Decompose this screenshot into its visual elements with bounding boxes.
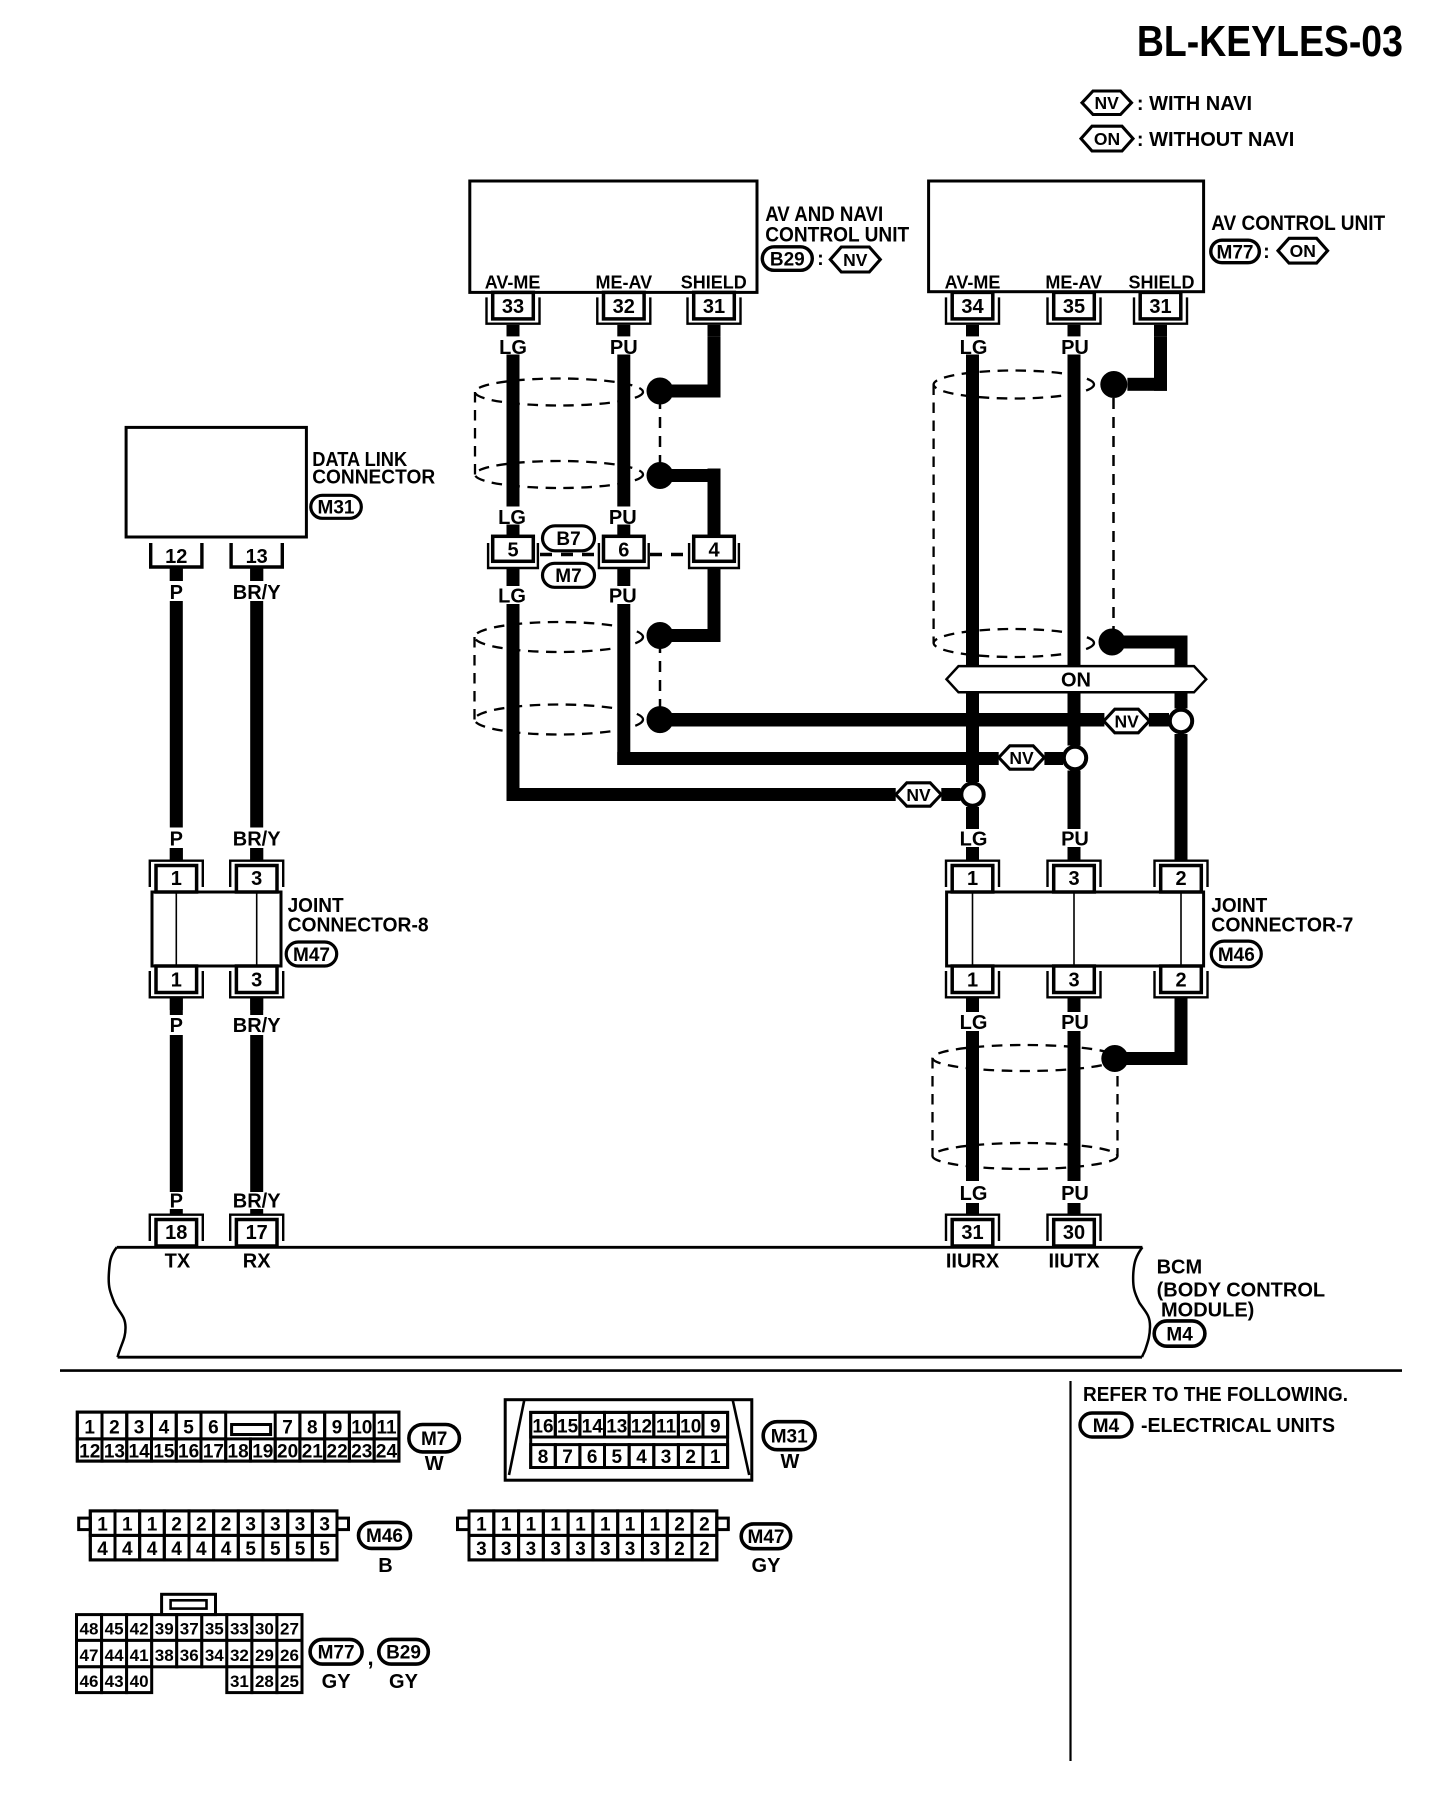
- wire LG right stub above pin 31: [966, 1203, 979, 1215]
- svg-text:5: 5: [183, 1418, 194, 1439]
- inline connector dashed link 6-4: [650, 553, 688, 556]
- svg-text:M77: M77: [1217, 242, 1254, 263]
- svg-text:,: ,: [367, 1645, 373, 1670]
- svg-text:43: 43: [105, 1672, 124, 1691]
- svg-text:12: 12: [165, 546, 187, 568]
- shield cylinder 4 (right upper): [934, 371, 1094, 399]
- svg-text:AV-ME: AV-ME: [485, 273, 541, 293]
- shield junction dot 4: [647, 706, 674, 733]
- svg-text:PU: PU: [609, 586, 637, 608]
- svg-text:BL-KEYLES-03: BL-KEYLES-03: [1137, 17, 1403, 66]
- svg-text:1: 1: [171, 868, 182, 890]
- svg-text:M31: M31: [318, 498, 355, 519]
- JC8 internal link pin 3: [256, 892, 258, 966]
- svg-text:GY: GY: [752, 1555, 782, 1577]
- connector oval M31: [311, 495, 362, 518]
- BCM box right torn edge: [1133, 1247, 1150, 1357]
- svg-text:M77: M77: [318, 1643, 355, 1664]
- svg-text:B29: B29: [770, 249, 805, 270]
- wire shield drain long horizontal: [660, 713, 1104, 727]
- svg-text:CONNECTOR-8: CONNECTOR-8: [288, 915, 429, 937]
- svg-text:: WITH NAVI: : WITH NAVI: [1137, 93, 1252, 115]
- svg-text:1: 1: [967, 868, 978, 890]
- svg-text:NV: NV: [1009, 748, 1034, 768]
- JC8 pin 3 bottom: [236, 966, 277, 993]
- svg-text:: WITHOUT NAVI: : WITHOUT NAVI: [1137, 129, 1294, 151]
- connector oval M77: [1211, 240, 1260, 263]
- svg-text:9: 9: [332, 1418, 343, 1439]
- svg-text:B29: B29: [386, 1643, 421, 1664]
- JC7 pin 2 top: [1161, 866, 1202, 893]
- svg-text:6: 6: [208, 1418, 219, 1439]
- svg-text:1: 1: [710, 1447, 721, 1468]
- svg-text:BR/Y: BR/Y: [233, 582, 281, 604]
- svg-text:AV CONTROL UNIT: AV CONTROL UNIT: [1211, 212, 1385, 235]
- wire drain vertical above splice: [1175, 649, 1188, 709]
- wire BR/Y run DLC to JC8: [250, 601, 263, 828]
- svg-text:M31: M31: [771, 1427, 808, 1448]
- svg-text:1: 1: [171, 970, 182, 992]
- BCM box top edge: [117, 1246, 1143, 1249]
- svg-text:5: 5: [270, 1539, 281, 1560]
- svg-text:MODULE): MODULE): [1161, 1300, 1254, 1322]
- svg-text:1: 1: [967, 970, 978, 992]
- svg-text:P: P: [170, 1015, 183, 1037]
- svg-text:GY: GY: [389, 1671, 419, 1693]
- svg-text:3: 3: [600, 1539, 611, 1560]
- connector face M31 (16-pin DLC): [505, 1400, 752, 1481]
- svg-text:34: 34: [961, 296, 984, 318]
- connector oval B29 (footer): [379, 1639, 429, 1664]
- wire BR/Y run JC8 to BCM: [250, 1035, 263, 1192]
- wire shield junction 2 horizontal: [660, 469, 721, 482]
- svg-text:5: 5: [295, 1539, 306, 1560]
- JC8 pin 1 bottom: [156, 966, 197, 993]
- connector oval M47 (footer): [741, 1524, 791, 1549]
- pin 12 (DLC): [151, 543, 202, 567]
- svg-text:42: 42: [130, 1620, 149, 1639]
- svg-text:48: 48: [80, 1620, 99, 1639]
- svg-text:LG: LG: [499, 337, 527, 359]
- AV and NAVI control unit box B29: [470, 181, 757, 292]
- wire PU right run: [1068, 355, 1081, 746]
- svg-text:3: 3: [1068, 970, 1079, 992]
- svg-text:3: 3: [575, 1539, 586, 1560]
- pin 32 (B29 ME-AV): [604, 292, 645, 319]
- svg-text:RX: RX: [243, 1251, 271, 1273]
- svg-text:M4: M4: [1166, 1324, 1193, 1345]
- JC8 pin 1 top: [156, 866, 197, 893]
- svg-text::: :: [817, 248, 824, 270]
- svg-text:39: 39: [155, 1620, 174, 1639]
- JC7 pin 2 bottom: [1161, 966, 1202, 993]
- svg-text:18: 18: [165, 1222, 187, 1244]
- svg-text:REFER TO THE FOLLOWING.: REFER TO THE FOLLOWING.: [1083, 1384, 1348, 1406]
- svg-text:2: 2: [1175, 970, 1186, 992]
- wire PU right run to BCM: [1068, 1031, 1081, 1181]
- JC7 internal link pin 1: [972, 892, 974, 966]
- connector oval M47 (JC8): [286, 942, 337, 966]
- svg-text:15: 15: [557, 1417, 579, 1438]
- connector face M7 (24-pin): [77, 1412, 399, 1461]
- inline connector pin 6: [604, 536, 645, 561]
- svg-text:3: 3: [1068, 868, 1079, 890]
- svg-text:11: 11: [656, 1417, 677, 1438]
- JC8 pin 3 top: [236, 866, 277, 893]
- svg-text:32: 32: [613, 296, 635, 318]
- svg-text:4: 4: [171, 1539, 182, 1560]
- wire shield right junction horizontal: [1127, 378, 1167, 391]
- svg-text:M7: M7: [555, 566, 581, 587]
- svg-text:5: 5: [507, 539, 518, 561]
- ON hexagon at M77: [1278, 238, 1328, 263]
- wire LG left run down: [507, 604, 520, 801]
- connector oval M4 (footer): [1080, 1413, 1132, 1437]
- wire PU stub below pin 6: [617, 568, 630, 586]
- wire PU stub above pin 6: [617, 525, 630, 537]
- svg-text:26: 26: [280, 1646, 299, 1665]
- shield right drain dashed: [1112, 398, 1115, 630]
- shield drain dashed link 1: [659, 398, 662, 469]
- svg-text:14: 14: [129, 1442, 151, 1463]
- svg-text:4: 4: [97, 1539, 108, 1560]
- wire P run JC8 to BCM: [170, 1035, 183, 1192]
- inline connector dashed link 5-6: [540, 553, 597, 556]
- svg-text:4: 4: [122, 1539, 133, 1560]
- joint connector-7 box M46: [947, 892, 1204, 966]
- shield junction dot 3: [647, 622, 674, 649]
- svg-text:3: 3: [476, 1539, 487, 1560]
- pin 13 (DLC): [231, 543, 282, 567]
- svg-text:TX: TX: [165, 1251, 191, 1273]
- wire BR/Y stub below pin 13: [250, 569, 263, 582]
- wire PU stub hexagon to splice: [1044, 752, 1063, 765]
- svg-text:2: 2: [196, 1515, 207, 1536]
- NV hexagon on drain splice: [1104, 709, 1150, 733]
- BCM pin 30: [1054, 1220, 1095, 1247]
- svg-text:P: P: [170, 829, 183, 851]
- svg-text:1: 1: [122, 1515, 133, 1536]
- pin 34 (M77 AV-ME): [952, 292, 993, 319]
- svg-text:21: 21: [302, 1442, 324, 1463]
- shield junction dot 1: [647, 378, 674, 405]
- svg-text:2: 2: [699, 1515, 710, 1536]
- wire PU left horizontal: [617, 752, 998, 765]
- svg-text:M7: M7: [421, 1429, 447, 1450]
- svg-text:3: 3: [251, 970, 262, 992]
- svg-text:2: 2: [674, 1515, 685, 1536]
- splice circle LG (with navi): [961, 783, 983, 805]
- BCM pin 18: [156, 1220, 197, 1247]
- shield 3 junction dot: [1101, 1045, 1128, 1072]
- connector face M77/B29: [77, 1615, 102, 1641]
- svg-text:11: 11: [376, 1418, 397, 1439]
- svg-text:31: 31: [703, 296, 725, 318]
- wire P stub above JC8 pin 1: [170, 848, 183, 861]
- svg-text:12: 12: [631, 1417, 652, 1438]
- svg-text:33: 33: [502, 296, 524, 318]
- wire shield below pin 4: [708, 568, 721, 642]
- svg-text:24: 24: [376, 1442, 398, 1463]
- svg-text:30: 30: [255, 1620, 274, 1639]
- svg-text:27: 27: [280, 1620, 299, 1639]
- svg-text:LG: LG: [960, 1012, 988, 1034]
- svg-text:ME-AV: ME-AV: [1045, 273, 1102, 293]
- svg-text:31: 31: [1149, 296, 1171, 318]
- svg-text:7: 7: [562, 1447, 573, 1468]
- svg-text:GY: GY: [322, 1671, 352, 1693]
- JC7 pin 3 top: [1054, 866, 1095, 893]
- shield cylinder 1 (left upper): [475, 379, 643, 406]
- wire shield right vertical from pin 31: [1154, 337, 1167, 391]
- svg-text:2: 2: [699, 1539, 710, 1560]
- svg-text:4: 4: [636, 1447, 647, 1468]
- connector face M47: [469, 1511, 717, 1560]
- svg-text:6: 6: [618, 539, 629, 561]
- shield cylinder 2 (left lower): [475, 622, 643, 652]
- connector oval M31 (footer): [763, 1422, 815, 1450]
- wire LG right stub below JC7 pin 1: [966, 998, 979, 1012]
- wire BR/Y stub above JC8 pin 3: [250, 848, 263, 861]
- svg-text:M47: M47: [748, 1527, 785, 1548]
- svg-text:37: 37: [180, 1620, 199, 1639]
- svg-text:3: 3: [245, 1515, 256, 1536]
- svg-text:34: 34: [205, 1646, 224, 1665]
- svg-text:NV: NV: [1114, 711, 1139, 731]
- svg-text:13: 13: [104, 1442, 125, 1463]
- svg-text:6: 6: [587, 1447, 598, 1468]
- wire PU left run down: [617, 604, 630, 765]
- svg-text:10: 10: [680, 1417, 701, 1438]
- wire shield junction 1 horizontal: [660, 385, 721, 398]
- JC7 internal link pin 3: [1073, 892, 1075, 966]
- svg-text:4: 4: [708, 539, 720, 561]
- footer vertical divider: [1069, 1381, 1071, 1761]
- svg-text:5: 5: [319, 1539, 330, 1560]
- svg-text:1: 1: [97, 1515, 108, 1536]
- svg-text:22: 22: [327, 1442, 348, 1463]
- svg-text:CONTROL UNIT: CONTROL UNIT: [765, 223, 909, 246]
- JC7 pin 1 top: [952, 866, 993, 893]
- wire P stub below JC8 pin 1: [170, 998, 183, 1015]
- wire LG right below splice: [966, 807, 979, 829]
- svg-text:40: 40: [130, 1672, 149, 1691]
- BCM box bottom edge: [118, 1356, 1142, 1359]
- svg-text:1: 1: [650, 1515, 661, 1536]
- svg-text:1: 1: [501, 1515, 512, 1536]
- connector oval B7: [543, 526, 595, 551]
- svg-text:PU: PU: [1061, 1183, 1089, 1205]
- svg-text:PU: PU: [609, 507, 637, 529]
- svg-text:P: P: [170, 582, 183, 604]
- inline connector pin 4: [694, 536, 735, 561]
- svg-text:8: 8: [307, 1418, 318, 1439]
- svg-text:NV: NV: [1095, 93, 1120, 113]
- wire LG right run to BCM: [966, 1031, 979, 1181]
- svg-text:7: 7: [282, 1418, 293, 1439]
- svg-text:2: 2: [674, 1539, 685, 1560]
- svg-text:2: 2: [171, 1515, 182, 1536]
- svg-text:20: 20: [277, 1442, 298, 1463]
- wire P stub above pin 18: [170, 1209, 183, 1215]
- svg-text:1: 1: [526, 1515, 537, 1536]
- JC8 internal link pin 1: [175, 892, 177, 966]
- svg-text:1: 1: [147, 1515, 158, 1536]
- connector oval M77 (footer): [310, 1639, 362, 1664]
- svg-text:14: 14: [582, 1417, 604, 1438]
- connector oval M46 (JC7): [1211, 941, 1261, 967]
- wire LG stub hexagon to splice: [941, 788, 960, 801]
- svg-text:10: 10: [351, 1418, 372, 1439]
- svg-text:PU: PU: [1061, 829, 1089, 851]
- svg-text:15: 15: [153, 1442, 175, 1463]
- svg-text:32: 32: [230, 1646, 249, 1665]
- svg-text:BR/Y: BR/Y: [233, 829, 281, 851]
- svg-text:3: 3: [134, 1418, 145, 1439]
- svg-text:30: 30: [1063, 1222, 1085, 1244]
- svg-text:35: 35: [1063, 296, 1085, 318]
- svg-text:-ELECTRICAL UNITS: -ELECTRICAL UNITS: [1141, 1415, 1335, 1437]
- svg-text:19: 19: [252, 1442, 273, 1463]
- svg-text:2: 2: [221, 1515, 232, 1536]
- svg-text:W: W: [780, 1451, 799, 1473]
- svg-text:2: 2: [685, 1447, 696, 1468]
- svg-text:B: B: [378, 1555, 392, 1577]
- svg-text:M4: M4: [1093, 1416, 1120, 1437]
- svg-text:35: 35: [205, 1620, 224, 1639]
- wire LG left run to connector M7/B7: [507, 355, 520, 507]
- BCM box left torn edge: [109, 1247, 126, 1357]
- joint connector-8 box M47: [152, 892, 281, 966]
- svg-text:4: 4: [221, 1539, 232, 1560]
- shield right junction dot lower: [1099, 629, 1126, 656]
- svg-text:4: 4: [147, 1539, 158, 1560]
- svg-text:3: 3: [625, 1539, 636, 1560]
- JC7 pin 1 bottom: [952, 966, 993, 993]
- wire PU left run to connector M7/B7: [617, 355, 630, 507]
- svg-text:3: 3: [550, 1539, 561, 1560]
- legend ON hexagon: [1081, 126, 1133, 151]
- svg-text:12: 12: [79, 1442, 100, 1463]
- connector face M46: [90, 1511, 337, 1560]
- svg-text:3: 3: [661, 1447, 672, 1468]
- svg-text:29: 29: [255, 1646, 274, 1665]
- svg-text:LG: LG: [498, 586, 526, 608]
- svg-text:3: 3: [526, 1539, 537, 1560]
- svg-text:BR/Y: BR/Y: [233, 1015, 281, 1037]
- wire drain below splice: [1175, 734, 1188, 861]
- svg-text:PU: PU: [1061, 337, 1089, 359]
- svg-text:W: W: [425, 1453, 444, 1475]
- svg-text:1: 1: [600, 1515, 611, 1536]
- svg-text:38: 38: [155, 1646, 174, 1665]
- svg-text:2: 2: [109, 1418, 120, 1439]
- svg-text:45: 45: [105, 1620, 124, 1639]
- svg-text:P: P: [170, 1191, 183, 1213]
- wire shield vertical to pin 4: [708, 469, 721, 537]
- svg-text:31: 31: [230, 1672, 249, 1691]
- BCM pin 17: [236, 1220, 277, 1247]
- svg-text:M46: M46: [1218, 945, 1255, 966]
- ON option banner: [947, 666, 1207, 692]
- wire drain horizontal to shield 3: [1115, 1052, 1188, 1065]
- svg-text:ON: ON: [1061, 670, 1091, 692]
- svg-text:BR/Y: BR/Y: [233, 1191, 281, 1213]
- pin 31 (B29 SHIELD): [694, 292, 735, 319]
- svg-text:41: 41: [130, 1646, 149, 1665]
- svg-text:LG: LG: [498, 507, 526, 529]
- wire PU right below splice: [1068, 771, 1081, 830]
- wire shield left vertical from pin 31: [708, 337, 721, 398]
- svg-text:4: 4: [196, 1539, 207, 1560]
- svg-text:3: 3: [295, 1515, 306, 1536]
- BCM pin 31: [952, 1220, 993, 1247]
- svg-text::: :: [1263, 241, 1270, 263]
- connector oval M7 (footer): [409, 1425, 460, 1452]
- wire LG left horizontal: [507, 788, 896, 801]
- wire drain stub hexagon to splice: [1149, 713, 1169, 727]
- svg-text:47: 47: [80, 1646, 99, 1665]
- svg-text:SHIELD: SHIELD: [1128, 273, 1194, 293]
- svg-text:5: 5: [245, 1539, 256, 1560]
- svg-text:1: 1: [476, 1515, 487, 1536]
- svg-text:ON: ON: [1094, 129, 1120, 149]
- svg-text:3: 3: [270, 1515, 281, 1536]
- svg-text:8: 8: [538, 1447, 549, 1468]
- wire P run DLC to JC8: [170, 601, 183, 828]
- svg-text:46: 46: [80, 1672, 99, 1691]
- svg-text:33: 33: [230, 1620, 249, 1639]
- inline connector pin 5: [493, 536, 534, 561]
- svg-text:AV-ME: AV-ME: [945, 273, 1001, 293]
- svg-text:M47: M47: [293, 945, 330, 966]
- data link connector box M31: [126, 427, 306, 537]
- svg-text:M46: M46: [366, 1526, 403, 1547]
- svg-text:25: 25: [280, 1672, 299, 1691]
- svg-text:44: 44: [105, 1646, 124, 1665]
- legend NV hexagon: [1082, 91, 1132, 115]
- svg-text:NV: NV: [906, 785, 931, 805]
- NV hexagon on LG splice: [896, 783, 941, 806]
- wire drain stub below JC7 pin 2: [1175, 998, 1188, 1065]
- svg-text:BCM: BCM: [1157, 1256, 1203, 1278]
- svg-text:17: 17: [203, 1442, 224, 1463]
- svg-text:(BODY CONTROL: (BODY CONTROL: [1157, 1279, 1326, 1301]
- JC7 pin 3 bottom: [1054, 966, 1095, 993]
- svg-text:PU: PU: [1061, 1012, 1089, 1034]
- svg-text:18: 18: [228, 1442, 249, 1463]
- shield drain dashed link 2: [659, 642, 662, 713]
- svg-text:17: 17: [246, 1222, 268, 1244]
- svg-text:5: 5: [612, 1447, 623, 1468]
- wire LG right stub above JC7 pin 1: [966, 847, 979, 861]
- svg-text:3: 3: [319, 1515, 330, 1536]
- shield junction dot 2: [647, 462, 674, 489]
- wire BR/Y stub below JC8 pin 3: [250, 998, 263, 1015]
- svg-text:9: 9: [710, 1417, 721, 1438]
- svg-text:13: 13: [606, 1417, 627, 1438]
- connector oval M4 (BCM): [1154, 1321, 1205, 1346]
- connector oval M7 (inline): [543, 563, 595, 587]
- svg-text:CONNECTOR: CONNECTOR: [312, 467, 436, 489]
- wire PU right stub above JC7 pin 3: [1068, 847, 1081, 861]
- svg-text:IIUTX: IIUTX: [1048, 1251, 1100, 1273]
- svg-text:3: 3: [650, 1539, 661, 1560]
- AV control unit box M77: [929, 181, 1204, 292]
- svg-text:3: 3: [501, 1539, 512, 1560]
- splice circle PU (with navi): [1064, 747, 1086, 769]
- NV hexagon on PU splice: [999, 746, 1044, 769]
